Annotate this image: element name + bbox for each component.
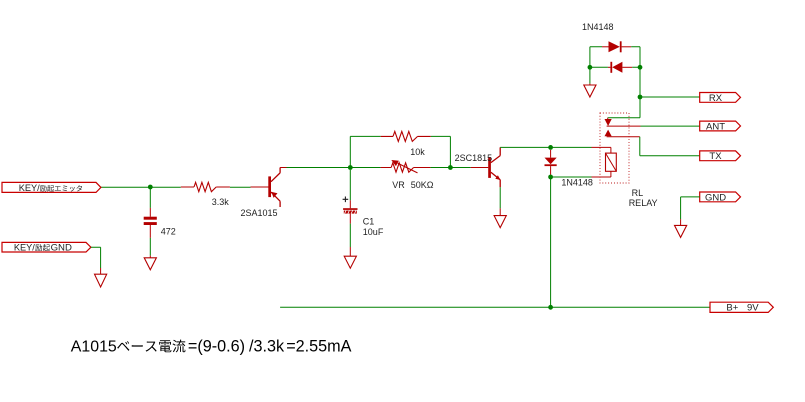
svg-text:A1015: A1015 — [71, 338, 117, 355]
wire: relay NO contact to TX — [607, 136, 640, 138]
svg-text:1N4148: 1N4148 — [582, 22, 614, 32]
port ANT — [700, 121, 741, 131]
wire: KEY/GND to ground — [91, 247, 101, 268]
ground below C1 — [344, 256, 356, 268]
wire: Q2 collector rail to relay coil — [500, 146, 591, 148]
wire: junction down to C1 — [349, 170, 351, 200]
svg-text:RL: RL — [632, 188, 644, 198]
svg-text:GND: GND — [705, 192, 726, 203]
wire: D3 anode down to B+ rail — [550, 177, 552, 307]
capacitor 472 — [144, 217, 176, 238]
svg-text:/3.3k: /3.3k — [249, 337, 285, 355]
port TX — [700, 151, 741, 161]
diode D1 1N4148 (top) — [602, 41, 631, 52]
port B+ 9V — [710, 302, 773, 314]
svg-text:VR: VR — [392, 180, 405, 190]
wire: base stub Q1 — [251, 186, 269, 188]
note: base current formula — [71, 337, 352, 355]
svg-text:RX: RX — [709, 93, 723, 104]
node: junction B+ rail / D3 branch — [548, 305, 553, 310]
port KEY/励起GND — [2, 242, 91, 253]
svg-text:9V: 9V — [747, 303, 759, 314]
wire: branch up to 10k resistor — [350, 136, 450, 167]
port GND — [700, 192, 741, 202]
svg-text:TX: TX — [709, 151, 722, 162]
svg-text:2SA1015: 2SA1015 — [241, 208, 278, 218]
port KEY/励起エミッタ — [2, 182, 101, 193]
svg-text:10uF: 10uF — [363, 227, 384, 237]
svg-text:2SC1815: 2SC1815 — [455, 153, 493, 163]
node: loop right junction — [638, 65, 643, 70]
node: junction mid-rail / 10k / C1 — [348, 165, 353, 170]
resistor 10k — [381, 131, 431, 156]
ground below GND port — [675, 225, 687, 237]
wire: base stub Q2 — [471, 167, 489, 169]
node: loop left junction — [588, 65, 593, 70]
svg-text:RELAY: RELAY — [629, 198, 658, 208]
wire: relay common to ANT — [607, 125, 641, 127]
node: junction RX / relay common — [638, 95, 643, 100]
wire: capacitor 472 to ground — [149, 238, 151, 256]
wire: bottom B+ rail — [280, 306, 710, 308]
svg-text:KEY/: KEY/ — [19, 183, 40, 193]
relay contact arrow (up) — [605, 130, 612, 137]
potentiometer VR 50KΩ — [381, 160, 434, 190]
resistor 3.3k — [181, 182, 230, 207]
wire: KEY input net to 3.3k resistor — [101, 186, 251, 188]
node: junction KEY line / C472 — [148, 185, 153, 190]
ground below C472 — [144, 258, 156, 270]
ground below KEY/GND — [95, 274, 107, 287]
svg-text:C1: C1 — [363, 216, 375, 226]
capacitor C1 10uF (electrolytic) — [343, 197, 384, 237]
relay coil RL — [606, 153, 617, 171]
wire: C1 to ground — [349, 224, 351, 247]
wire: loop left to ground — [589, 84, 591, 85]
wire: coil bottom link — [551, 175, 592, 177]
svg-text:=2.55mA: =2.55mA — [286, 337, 351, 355]
node: junction mid-rail / 10k right — [448, 165, 453, 170]
wire: diode pair loop — [590, 47, 640, 97]
ground below Q2 emitter — [494, 216, 506, 228]
node: junction collector rail / D3 — [548, 145, 553, 150]
svg-text:KEY/: KEY/ — [14, 242, 35, 252]
svg-text:=(9-0.6): =(9-0.6) — [188, 337, 245, 355]
svg-text:50KΩ: 50KΩ — [411, 180, 434, 190]
wire: GND port to ground — [681, 197, 700, 219]
svg-text:472: 472 — [161, 227, 176, 237]
ground below diode loop — [584, 85, 596, 97]
svg-text:10k: 10k — [410, 147, 425, 157]
wire: relay common entry from RX node — [608, 97, 640, 118]
svg-text:GND: GND — [51, 242, 72, 253]
wire: to RX port — [640, 96, 700, 98]
relay RL dotted outline — [600, 113, 629, 183]
transistor Q1 2SA1015 (PNP) — [241, 168, 281, 218]
port RX — [700, 93, 741, 103]
svg-text:1N4148: 1N4148 — [561, 178, 593, 188]
svg-text:3.3k: 3.3k — [212, 197, 230, 207]
transistor Q2 2SC1815 (NPN) — [455, 147, 501, 187]
diode D3 1N4148 (across coil) — [545, 150, 593, 188]
relay contact arrow (down) — [607, 118, 609, 119]
node: junction D3 anode / coil return — [548, 175, 553, 180]
wire: Q1 collector rail to VR and Q2 base — [280, 167, 286, 169]
svg-text:ANT: ANT — [706, 121, 725, 132]
svg-text:B+: B+ — [726, 303, 738, 314]
wire: junction down to capacitor 472 — [149, 189, 151, 208]
wire: Q2 emitter to ground — [499, 187, 501, 208]
diode D2 1N4148 (bottom, reversed) — [608, 62, 632, 73]
